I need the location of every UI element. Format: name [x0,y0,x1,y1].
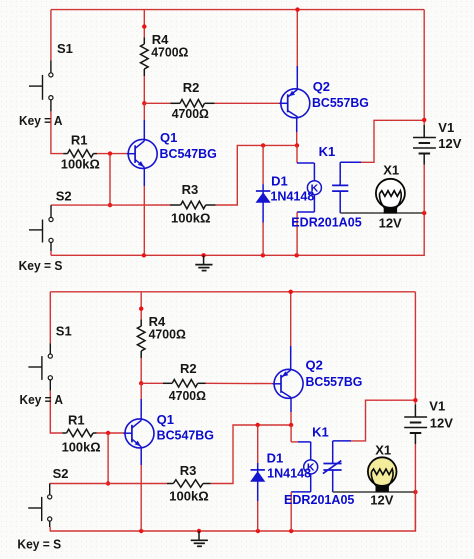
wire R3 to collector node c1 [216,145,297,205]
svg-text:R1: R1 [68,412,85,427]
svg-text:K: K [307,462,315,474]
junction base/S2/R3 c2 [106,481,110,485]
svg-text:100kΩ: 100kΩ [169,488,209,503]
svg-text:R1: R1 [71,133,88,148]
svg-text:X1: X1 [383,162,399,177]
resistor R4 c1 [141,37,149,76]
wire ground rail c2 [50,492,416,531]
wire Q2 collector c2 [290,397,292,425]
wire Q2 collector c1 [296,117,298,145]
wire V+ to R4 c2 [140,292,142,320]
junction V1 top c1 [422,118,426,122]
wire R4 to node c2 [140,358,142,383]
svg-text:S1: S1 [56,324,72,339]
junction Q2 collector node c1 [295,143,299,147]
switch S1 c1 [29,60,53,111]
svg-text:S2: S2 [53,466,69,481]
svg-text:BC557BG: BC557BG [312,95,369,110]
switch S1 c2 [28,343,52,390]
resistor R3 c1 [170,201,216,209]
svg-text:4700Ω: 4700Ω [149,327,186,342]
wire left rail upper c1 [50,10,52,61]
junction emitter/ground rail c2 [139,529,143,533]
svg-text:R3: R3 [180,463,197,478]
wire lamp net c2 [333,491,416,493]
resistor R4 c2 [137,319,145,358]
battery V1 c1 [413,125,436,165]
svg-text:Q1: Q1 [157,412,174,427]
wire base node down c1 [109,154,111,206]
svg-text:BC547BG: BC547BG [157,428,214,443]
svg-text:R2: R2 [180,361,197,376]
svg-text:K1: K1 [319,144,336,159]
wire coil bottom lead c1 [297,195,314,256]
svg-text:12V: 12V [379,215,402,230]
wire top power rail c2 [50,291,415,293]
junction emitter/ground rail c1 [142,253,146,257]
wire node to S2 c1 [51,204,110,206]
svg-text:Key = S: Key = S [17,536,61,551]
wire top power rail c1 [51,9,424,11]
wire contact top lead c2 [333,400,416,463]
transistor Q2 c2 [273,369,304,398]
svg-text:K1: K1 [312,425,329,440]
wire Q1 emitter c2 [140,447,142,531]
wire S1 to R1 c1 [51,111,63,153]
resistor R2 c2 [163,380,206,388]
wire base node down c2 [107,433,109,484]
wire left rail upper c2 [49,292,51,344]
svg-text:D1: D1 [267,450,284,465]
wire R2 to Q2 base c2 [206,382,275,384]
svg-text:S1: S1 [57,41,73,56]
junction lamp net/rail c2 [413,490,417,494]
wire lamp net c1 [340,212,424,214]
svg-text:D1: D1 [271,173,288,188]
wire node to R3 c2 [108,483,167,485]
svg-text:4700Ω: 4700Ω [151,44,188,59]
svg-text:R3: R3 [182,182,199,197]
wire ground rail c1 [51,213,424,255]
svg-text:Q1: Q1 [160,130,177,145]
wire node to S2 c2 [50,483,108,485]
wire node to R2 c2 [141,382,163,384]
wire right rail upper c2 [414,292,416,405]
transistor Q2 c1 [279,89,310,118]
svg-text:12V: 12V [438,136,461,151]
svg-text:4700Ω: 4700Ω [172,106,209,121]
transistor Q1 c2 [124,419,155,448]
resistor R1 c2 [62,429,97,437]
resistor R1 c1 [63,150,97,158]
svg-text:Key = A: Key = A [20,392,64,407]
transistor Q1 c1 [127,139,158,168]
wire node to R3 c1 [110,204,170,206]
wire R1 to base node c1 [97,153,128,155]
svg-text:V1: V1 [438,120,454,135]
svg-text:BC547BG: BC547BG [160,146,217,161]
resistor R3 c2 [167,480,211,488]
switch S2 c2 [28,484,52,528]
svg-text:Key = S: Key = S [19,258,63,273]
wire Q1 collector c1 [143,103,145,141]
wire Q1 collector c2 [140,383,142,420]
svg-text:4700Ω: 4700Ω [169,388,206,403]
junction R4/R2/collector c2 [139,381,143,385]
wire D1 anode c1 [262,145,264,255]
junction R1/base c1 [108,151,112,155]
junction R4 top c2 [139,307,143,311]
relay coil K1 c2 [304,460,318,474]
battery V1 c2 [404,404,427,444]
svg-text:R2: R2 [183,80,200,95]
wire node to R2 c1 [144,102,170,104]
junction coil/ground rail c1 [295,253,299,257]
junction Q2 emitter/rail c2 [289,290,293,294]
junction V1 top c2 [413,398,417,402]
svg-text:EDR201A05: EDR201A05 [284,492,354,507]
wire S2 to ground rail c1 [50,251,52,255]
junction lamp net/rail c1 [422,211,426,215]
junction coil/ground rail c2 [289,529,293,533]
svg-text:Q2: Q2 [313,79,330,94]
wire contact bottom lead c2 [332,470,334,492]
svg-text:100kΩ: 100kΩ [61,157,100,172]
wire right rail lower c1 [423,165,425,214]
svg-text:12V: 12V [430,416,453,431]
wire V+ to R4 c1 [143,10,145,38]
svg-text:Key = A: Key = A [19,113,63,128]
svg-text:V1: V1 [429,399,445,414]
diode D1 c2 [250,470,265,482]
junction D1/ground rail c1 [261,253,265,257]
wire coil bottom lead c2 [291,474,311,531]
junction D1 top c1 [261,143,265,147]
wire Q2 emitter c2 [290,292,292,370]
lamp X1 c2 [368,457,397,491]
svg-text:BC557BG: BC557BG [306,374,363,389]
wire S1 to R1 c2 [50,391,62,433]
lamp X1 c1 [376,179,405,214]
relay contact K1 closed c2 [323,461,342,474]
wire R1 to base node c2 [97,432,125,434]
wire D1 anode c2 [257,425,259,531]
junction R4/R2/collector c1 [142,101,146,105]
junction R1/base c2 [106,431,110,435]
svg-text:100kΩ: 100kΩ [62,440,101,455]
relay coil K1 c1 [307,181,321,195]
junction Q2 collector node c2 [289,423,293,427]
wire S2 to ground rail c2 [49,527,51,531]
junction ground symbol c2 [197,529,201,533]
relay contact K1 c1 [332,185,348,191]
junction base/S2/R3 c1 [108,203,112,207]
svg-text:X1: X1 [375,443,391,458]
wire Q2 emitter c1 [296,10,298,90]
diode D1 c1 [256,191,271,203]
wire contact top lead c1 [340,120,424,185]
junction Q2 emitter/rail c1 [295,7,299,11]
wire contact bottom lead c1 [339,191,341,213]
ground c2 [191,531,208,546]
junction D1/ground rail c2 [256,529,260,533]
svg-text:EDR201A05: EDR201A05 [291,214,361,229]
svg-text:Q2: Q2 [306,358,323,373]
wire coil top lead c2 [291,425,311,460]
junction ground symbol c1 [201,253,205,257]
resistor R2 c1 [170,100,214,108]
junction D1 top c2 [256,423,260,427]
svg-text:K: K [311,182,319,194]
wire right rail upper c1 [423,10,425,125]
svg-text:12V: 12V [370,492,393,507]
svg-text:S2: S2 [56,189,72,204]
junction R4 top c1 [142,24,146,28]
wire coil top lead c1 [297,145,314,180]
wire Q1 emitter c1 [143,167,145,255]
wire R4 to node c1 [143,76,145,103]
wire R2 to Q2 base c1 [215,102,281,104]
svg-text:100kΩ: 100kΩ [171,211,211,226]
wire R3 to collector node c2 [211,425,291,484]
ground c1 [195,255,212,270]
wire right rail lower c2 [414,444,416,531]
switch S2 c1 [29,205,53,251]
